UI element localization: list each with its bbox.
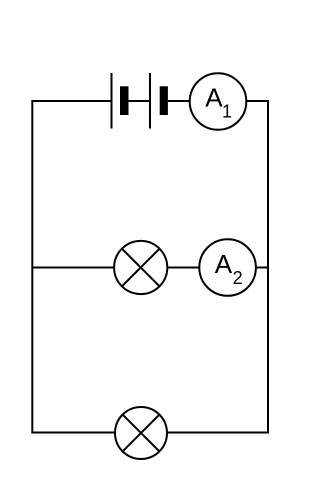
svg-text:A: A (215, 249, 233, 279)
svg-text:A: A (205, 83, 223, 113)
svg-text:1: 1 (222, 102, 232, 122)
svg-text:2: 2 (233, 268, 243, 288)
